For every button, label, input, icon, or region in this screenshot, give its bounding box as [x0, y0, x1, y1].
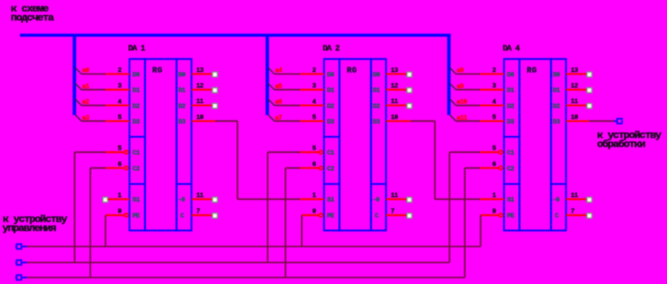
svg-text:11: 11	[571, 192, 579, 199]
wire output 11 of DA 2	[386, 198, 406, 200]
svg-text:подсчета: подсчета	[11, 12, 55, 24]
svg-text:4: 4	[492, 98, 496, 105]
terminal pad output 12 of DA 1	[212, 88, 217, 93]
svg-text:D2: D2	[327, 103, 335, 110]
svg-text:9: 9	[492, 208, 496, 215]
svg-text:a1: a1	[82, 83, 90, 90]
terminal: control line 2 connector	[17, 260, 22, 265]
wire: riser PE of DA 1 to control line 1	[105, 215, 107, 246]
wire: riser C2 of DA 4 to control line	[464, 168, 466, 278]
svg-text:1: 1	[118, 192, 122, 199]
wire: bus vertical drop to DA 1 inputs	[73, 34, 76, 115]
terminal pad output 12 of DA 2	[407, 88, 412, 93]
terminal pad S1 input of DA 1	[103, 197, 108, 202]
wire: diagonal branch a0	[75, 68, 81, 74]
wire output 13 of DA 4	[566, 73, 586, 75]
wire: diagonal branch a5	[268, 84, 274, 90]
wire output 7 of DA 4	[566, 214, 586, 216]
wire: riser C1 of DA 4 to control line	[449, 152, 451, 262]
wire a2 pin stub	[106, 104, 130, 106]
svg-text:3: 3	[312, 83, 316, 90]
divider left column lower	[504, 183, 520, 185]
svg-text:RG: RG	[527, 66, 537, 75]
svg-text:D2: D2	[553, 103, 561, 110]
wire: terminal left nub control line 2	[15, 262, 16, 264]
wire: control line 3	[27, 277, 465, 279]
wire a0 net segment	[81, 73, 105, 75]
wire output 12 of DA 4	[566, 89, 586, 91]
svg-text:10: 10	[391, 114, 399, 121]
svg-text:C2: C2	[507, 165, 515, 172]
wire: riser C2 of DA 2 to control line	[285, 168, 287, 278]
register DA 2 right pin column	[371, 59, 386, 231]
bus: power/data bus from counting circuit	[20, 34, 451, 37]
wire: diagonal branch a3	[75, 115, 81, 121]
svg-text:4: 4	[118, 98, 122, 105]
wire C2 net of DA 1	[90, 167, 105, 169]
wire a8 pin stub	[480, 73, 504, 75]
inversion circle PE of DA 1	[125, 213, 129, 217]
svg-text:RG: RG	[347, 66, 357, 75]
svg-text:9: 9	[312, 208, 316, 215]
svg-text:PE: PE	[327, 213, 335, 220]
terminal pad output 7 of DA 1	[212, 213, 217, 218]
inversion circle PE of DA 2	[319, 213, 323, 217]
wire a6 pin stub	[300, 104, 324, 106]
register DA 2 main body	[340, 59, 372, 231]
wire output 12 of DA 1	[192, 89, 212, 91]
svg-text:D1: D1	[133, 87, 141, 94]
svg-text:2: 2	[118, 67, 122, 74]
wire output 7 of DA 1	[192, 214, 212, 216]
terminal pad output 11 of DA 1	[212, 197, 217, 202]
svg-text:PE: PE	[133, 213, 141, 220]
wire C2 pin stub of DA 1	[106, 167, 125, 169]
wire a10 pin stub	[480, 104, 504, 106]
terminal: control line 1 connector	[17, 244, 22, 249]
svg-text:a10: a10	[457, 99, 468, 106]
wire: terminal stub control line 1	[21, 246, 27, 248]
wire output 12 of DA 2	[386, 89, 406, 91]
svg-text:-0: -0	[552, 197, 560, 204]
svg-text:6: 6	[492, 161, 496, 168]
wire: terminal left nub control line 1	[15, 246, 16, 248]
wire C2 pin stub of DA 4	[480, 167, 499, 169]
svg-text:5: 5	[492, 145, 496, 152]
svg-text:11: 11	[196, 192, 204, 199]
wire C1 net of DA 4	[450, 151, 481, 153]
wire: diagonal branch a7	[268, 115, 274, 121]
wire C2 net of DA 4	[465, 167, 480, 169]
svg-text:S1: S1	[133, 197, 141, 204]
wire a8 net segment	[456, 73, 480, 75]
svg-text:C2: C2	[327, 165, 335, 172]
wire C1 pin stub of DA 2	[300, 151, 319, 153]
wire a9 pin stub	[480, 89, 504, 91]
inversion circle C2 of DA 2	[319, 166, 323, 170]
wire C1 net of DA 1	[75, 151, 106, 153]
wire a4 pin stub	[300, 73, 324, 75]
svg-text:C2: C2	[133, 165, 141, 172]
wire output 11 of DA 2	[386, 104, 406, 106]
svg-text:D1: D1	[373, 87, 381, 94]
wire a9 net segment	[456, 89, 480, 91]
svg-text:C: C	[555, 213, 559, 220]
divider left column lower	[130, 183, 146, 185]
wire: riser C2 of DA 1 to control line	[89, 168, 91, 278]
wire a3 pin stub	[106, 120, 130, 122]
wire: riser C1 of DA 2 to control line	[267, 152, 269, 262]
svg-text:5: 5	[118, 114, 122, 121]
register DA 4 main body	[520, 59, 552, 231]
svg-text:7: 7	[196, 208, 200, 215]
wire a1 pin stub	[106, 89, 130, 91]
register DA 4 left pin column	[504, 59, 520, 231]
wire: bus vertical drop to DA 2 inputs	[266, 34, 269, 115]
inversion circle C1 of DA 4	[499, 150, 503, 154]
wire: riser PE of DA 2 to control line 1	[301, 215, 303, 246]
inversion circle C1 of DA 1	[125, 150, 129, 154]
terminal pad output 7 of DA 4	[587, 213, 592, 218]
svg-text:D3: D3	[178, 119, 186, 126]
wire a1 net segment	[81, 89, 105, 91]
wire a3 net segment	[81, 120, 105, 122]
svg-text:4: 4	[312, 98, 316, 105]
wire output 11 of DA 4	[566, 104, 586, 106]
svg-text:a4: a4	[275, 67, 283, 74]
svg-text:a9: a9	[457, 83, 465, 90]
divider right column	[177, 183, 192, 185]
svg-text:D0: D0	[178, 71, 186, 78]
wire a0 pin stub	[106, 73, 130, 75]
svg-text:5: 5	[312, 114, 316, 121]
svg-text:C1: C1	[327, 150, 335, 157]
svg-text:1: 1	[312, 192, 316, 199]
svg-text:a5: a5	[275, 83, 283, 90]
wire: control line 1	[27, 246, 481, 248]
svg-text:13: 13	[196, 67, 204, 74]
svg-text:управления: управления	[2, 223, 56, 235]
register DA 1 left pin column	[130, 59, 146, 231]
divider right column	[371, 183, 386, 185]
svg-text:11: 11	[391, 98, 399, 105]
svg-text:6: 6	[312, 161, 316, 168]
wire a11 net segment	[456, 120, 480, 122]
wire C1 net of DA 2	[268, 151, 300, 153]
svg-text:5: 5	[492, 114, 496, 121]
wire output 13 of DA 1	[192, 73, 212, 75]
svg-text:D1: D1	[507, 87, 515, 94]
wire: net 10 output of DA 4 to processing device	[566, 120, 589, 122]
divider right column	[551, 183, 566, 185]
svg-text:11: 11	[571, 98, 579, 105]
divider left column upper	[324, 136, 340, 138]
terminal pad output 13 of DA 2	[407, 72, 412, 77]
inversion circle C2 of DA 4	[499, 166, 503, 170]
terminal: connector to processing device	[617, 119, 622, 124]
svg-text:D3: D3	[507, 119, 515, 126]
wire: diagonal branch a2	[75, 99, 81, 105]
svg-text:7: 7	[391, 208, 395, 215]
wire: terminal left nub control line 3	[15, 277, 16, 279]
wire: diagonal branch a6	[268, 99, 274, 105]
svg-text:a8: a8	[457, 67, 465, 74]
svg-text:D3: D3	[327, 119, 335, 126]
svg-text:11: 11	[391, 192, 399, 199]
svg-text:D2: D2	[507, 103, 515, 110]
svg-text:D2: D2	[133, 103, 141, 110]
terminal pad output 11 of DA 4	[587, 197, 592, 202]
wire: net 10 from DA 2 to S1 of DA 4	[386, 120, 411, 122]
terminal pad output 7 of DA 2	[407, 213, 412, 218]
svg-text:5: 5	[118, 145, 122, 152]
svg-text:-0: -0	[372, 197, 380, 204]
svg-text:DA 4: DA 4	[503, 45, 520, 54]
wire output 11 of DA 4	[566, 198, 586, 200]
wire a7 pin stub	[300, 120, 324, 122]
wire: riser C1 of DA 1 to control line	[74, 152, 76, 262]
svg-text:PE: PE	[507, 213, 515, 220]
svg-text:C1: C1	[133, 150, 141, 157]
wire: diagonal branch a8	[450, 68, 456, 74]
wire S1 pin stub of DA 1	[108, 198, 130, 200]
svg-text:D1: D1	[178, 87, 186, 94]
wire output 13 of DA 2	[386, 73, 406, 75]
wire a11 pin stub	[480, 120, 504, 122]
wire a4 net segment	[274, 73, 300, 75]
svg-text:9: 9	[118, 208, 122, 215]
terminal pad output 11 of DA 4	[587, 103, 592, 108]
svg-text:D1: D1	[553, 87, 561, 94]
divider left column lower	[324, 183, 340, 185]
svg-text:DA 2: DA 2	[323, 45, 340, 54]
wire C1 pin stub of DA 1	[106, 151, 125, 153]
svg-text:C1: C1	[507, 150, 515, 157]
wire: net 10 from DA 1 to S1 of DA 2	[192, 120, 216, 122]
svg-text:D1: D1	[327, 87, 335, 94]
terminal pad output 11 of DA 2	[407, 197, 412, 202]
svg-text:12: 12	[196, 83, 204, 90]
terminal pad output 13 of DA 4	[587, 72, 592, 77]
svg-text:10: 10	[196, 114, 204, 121]
svg-text:13: 13	[571, 67, 579, 74]
svg-text:10: 10	[571, 114, 579, 121]
wire a7 net segment	[274, 120, 300, 122]
svg-text:D2: D2	[373, 103, 381, 110]
svg-text:3: 3	[492, 83, 496, 90]
wire C2 pin stub of DA 2	[300, 167, 319, 169]
svg-text:D0: D0	[373, 71, 381, 78]
svg-text:обработки: обработки	[597, 138, 645, 151]
wire a6 net segment	[274, 104, 300, 106]
svg-text:1: 1	[492, 192, 496, 199]
wire: diagonal branch a4	[268, 68, 274, 74]
svg-text:11: 11	[196, 98, 204, 105]
svg-text:C: C	[180, 213, 184, 220]
terminal pad output 11 of DA 2	[407, 103, 412, 108]
svg-text:12: 12	[391, 83, 399, 90]
svg-text:D3: D3	[133, 119, 141, 126]
inversion circle C2 of DA 1	[125, 166, 129, 170]
svg-text:2: 2	[492, 67, 496, 74]
register DA 1 right pin column	[177, 59, 192, 231]
svg-text:7: 7	[571, 208, 575, 215]
wire: control line 2	[27, 262, 450, 264]
register DA 1 main body	[145, 59, 177, 231]
terminal: control line 3 connector	[17, 275, 22, 280]
wire C2 net of DA 2	[286, 167, 301, 169]
terminal pad output 11 of DA 1	[212, 103, 217, 108]
svg-text:RG: RG	[152, 66, 162, 75]
svg-text:D0: D0	[327, 71, 335, 78]
wire output 11 of DA 1	[192, 104, 212, 106]
divider left column upper	[130, 136, 146, 138]
terminal pad output 12 of DA 4	[587, 88, 592, 93]
terminal pad output 13 of DA 1	[212, 72, 217, 77]
wire: terminal stub control line 2	[21, 262, 27, 264]
wire output 11 of DA 1	[192, 198, 212, 200]
wire PE pin stub of DA 2	[302, 214, 319, 216]
wire: diagonal branch a1	[75, 84, 81, 90]
svg-text:a7: a7	[275, 114, 283, 121]
wire: diagonal branch a11	[450, 115, 456, 121]
svg-text:D0: D0	[553, 71, 561, 78]
svg-text:12: 12	[571, 83, 579, 90]
svg-text:S1: S1	[327, 197, 335, 204]
inversion circle C1 of DA 2	[319, 150, 323, 154]
register DA 4 right pin column	[551, 59, 566, 231]
svg-text:C: C	[375, 213, 379, 220]
svg-text:-0: -0	[178, 197, 186, 204]
divider left column upper	[504, 136, 520, 138]
wire a5 pin stub	[300, 89, 324, 91]
svg-text:DA 1: DA 1	[128, 45, 145, 54]
wire: riser PE of DA 4 to control line 1	[480, 215, 482, 246]
svg-text:a0: a0	[82, 67, 90, 74]
svg-text:13: 13	[391, 67, 399, 74]
svg-text:a3: a3	[82, 114, 90, 121]
svg-text:a11: a11	[457, 114, 468, 121]
wire: diagonal branch a9	[450, 84, 456, 90]
wire a10 net segment	[456, 104, 480, 106]
wire output 7 of DA 2	[386, 214, 406, 216]
svg-text:S1: S1	[507, 197, 515, 204]
svg-text:D3: D3	[373, 119, 381, 126]
wire PE pin stub of DA 1	[106, 214, 125, 216]
wire a2 net segment	[81, 104, 105, 106]
svg-text:D3: D3	[553, 119, 561, 126]
svg-text:D0: D0	[133, 71, 141, 78]
wire: bus vertical drop to DA 4 inputs	[447, 34, 450, 115]
svg-text:a6: a6	[275, 99, 283, 106]
svg-text:2: 2	[312, 67, 316, 74]
inversion circle PE of DA 4	[499, 213, 503, 217]
wire: diagonal branch a10	[450, 99, 456, 105]
svg-text:5: 5	[312, 145, 316, 152]
wire a5 net segment	[274, 89, 300, 91]
svg-text:6: 6	[118, 161, 122, 168]
svg-text:D0: D0	[507, 71, 515, 78]
svg-text:D2: D2	[178, 103, 186, 110]
wire PE pin stub of DA 4	[481, 214, 499, 216]
svg-text:3: 3	[118, 83, 122, 90]
wire C1 pin stub of DA 4	[480, 151, 499, 153]
svg-text:a2: a2	[82, 99, 90, 106]
wire: terminal stub control line 3	[21, 277, 27, 279]
register DA 2 left pin column	[324, 59, 340, 231]
